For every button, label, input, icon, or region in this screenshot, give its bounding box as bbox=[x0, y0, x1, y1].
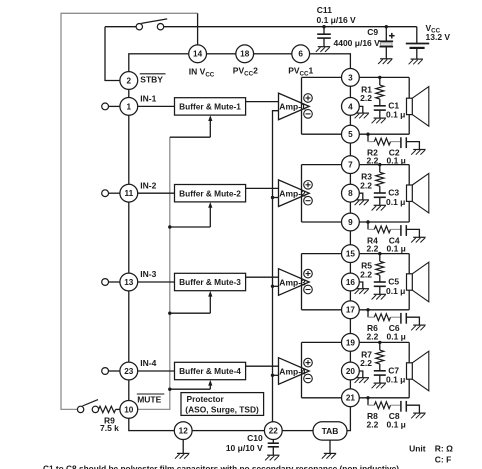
svg-text:2.2: 2.2 bbox=[360, 180, 372, 190]
svg-text:R: Ω: R: Ω bbox=[435, 443, 453, 453]
resistor R6 2.2 and capacitor C6 series bbox=[366, 308, 425, 330]
svg-text:19: 19 bbox=[346, 338, 356, 347]
capacitor C1 0.1u bbox=[372, 106, 386, 124]
svg-text:Amp-1: Amp-1 bbox=[279, 102, 306, 112]
svg-text:11: 11 bbox=[124, 189, 133, 198]
pin 2 bbox=[120, 72, 138, 90]
amp 2 output bus bbox=[301, 165, 303, 222]
wire Vcc to STBY/MUTE switches (gray loop) bbox=[61, 13, 198, 409]
svg-text:16: 16 bbox=[346, 278, 356, 287]
pin 15 bbox=[342, 245, 360, 263]
wire buffer 2 output to amp bbox=[246, 187, 279, 189]
svg-text:C10: C10 bbox=[247, 433, 263, 443]
amp 4 output bus bbox=[301, 342, 303, 397]
pin label PVcc1 bbox=[288, 66, 313, 78]
svg-text:21: 21 bbox=[346, 394, 356, 403]
wire pin to Buffer & Mute-4 bbox=[138, 370, 175, 372]
svg-text:IN-1: IN-1 bbox=[140, 94, 156, 104]
resistor R4 2.2 and capacitor C4 series bbox=[366, 220, 425, 242]
node label MUTE bbox=[137, 394, 165, 404]
svg-text:Buffer & Mute-1: Buffer & Mute-1 bbox=[179, 102, 241, 112]
ground at mid pin ch4 bbox=[355, 371, 369, 383]
pin 21 bbox=[342, 389, 360, 407]
resistor R2 2.2 and capacitor C2 series bbox=[366, 133, 425, 155]
speaker SP2 bbox=[407, 173, 429, 213]
pin 22 bbox=[264, 422, 282, 440]
wire top supply rail bbox=[105, 26, 417, 28]
note unit bbox=[409, 443, 453, 464]
op-amp Amp-4 bbox=[279, 358, 310, 385]
pin 19 bbox=[342, 334, 360, 352]
polarity minus amp 1 bbox=[304, 110, 313, 119]
node label IN-1 bbox=[140, 94, 156, 104]
polarity plus amp 1 bbox=[304, 94, 313, 103]
op-amp Amp-1 bbox=[279, 93, 310, 120]
amp 1 output bus bbox=[301, 77, 303, 134]
wire pin to Buffer & Mute-3 bbox=[138, 281, 175, 283]
svg-text:TAB: TAB bbox=[322, 426, 339, 436]
wire channel 4 bottom rail bbox=[302, 379, 410, 398]
svg-text:2.2: 2.2 bbox=[360, 93, 372, 103]
svg-text:18: 18 bbox=[240, 50, 250, 59]
wire channel 3 bottom rail bbox=[302, 290, 410, 310]
polarity plus amp 2 bbox=[304, 181, 313, 190]
resistor R7 2.2 bbox=[376, 341, 384, 371]
node label STBY bbox=[140, 74, 166, 85]
svg-text:C11: C11 bbox=[317, 5, 332, 15]
pin label PVcc2 bbox=[233, 66, 258, 78]
label R9 7.5k bbox=[100, 416, 119, 434]
speaker SP4 bbox=[407, 351, 429, 391]
svg-text:Protector: Protector bbox=[187, 394, 225, 404]
svg-text:0.1 μ: 0.1 μ bbox=[387, 331, 406, 341]
svg-text:0.1 μ: 0.1 μ bbox=[386, 110, 405, 120]
wire mute control bus (gray, pin 10 to buffer arrows) bbox=[138, 137, 170, 409]
svg-text:2.2: 2.2 bbox=[360, 358, 372, 368]
pin 4 bbox=[342, 98, 360, 116]
pin 3 bbox=[342, 69, 360, 87]
label R2 C2 bbox=[367, 148, 406, 166]
node label IN-2 bbox=[140, 180, 156, 190]
tab TAB bbox=[313, 422, 347, 440]
pin 17 bbox=[342, 301, 360, 319]
wire pin to Buffer & Mute-1 bbox=[138, 105, 175, 107]
resistor R1 2.2 bbox=[376, 76, 384, 106]
node label IN-4 bbox=[140, 358, 156, 368]
pin 18 bbox=[236, 45, 254, 63]
svg-text:Amp-2: Amp-2 bbox=[279, 189, 306, 199]
input terminal IN-4 bbox=[102, 368, 120, 375]
label Vcc 13.2V bbox=[426, 23, 451, 42]
svg-text:Buffer & Mute-3: Buffer & Mute-3 bbox=[179, 277, 241, 287]
ground pin 12 bbox=[175, 440, 189, 459]
battery Vcc 13.2V bbox=[406, 27, 429, 65]
speaker SP1 bbox=[407, 87, 429, 127]
pin 12 bbox=[174, 422, 192, 440]
wire switch to STBY pin 2 bbox=[105, 27, 120, 81]
svg-text:1: 1 bbox=[127, 102, 132, 111]
svg-text:3: 3 bbox=[348, 73, 353, 82]
pin 10 bbox=[120, 401, 138, 419]
svg-text:IN-4: IN-4 bbox=[140, 358, 156, 368]
svg-text:0.1 μ: 0.1 μ bbox=[387, 244, 406, 254]
pin 23 bbox=[120, 362, 138, 380]
buffer U2 Buffer & Mute-2 bbox=[175, 185, 246, 202]
svg-text:12: 12 bbox=[179, 427, 189, 436]
svg-text:Unit: Unit bbox=[409, 443, 426, 453]
ground at mid pin ch1 bbox=[355, 106, 369, 118]
svg-text:Amp-4: Amp-4 bbox=[279, 366, 306, 376]
op-amp Amp-3 bbox=[279, 269, 310, 296]
wire rail to IN Vcc pin 14 bbox=[197, 13, 199, 45]
svg-text:4400 μ/16 V: 4400 μ/16 V bbox=[334, 38, 381, 48]
wire mute control branch 1 with arrow bbox=[170, 115, 213, 137]
svg-text:17: 17 bbox=[346, 306, 356, 315]
amp 3 output bus bbox=[301, 254, 303, 310]
svg-text:MUTE: MUTE bbox=[137, 394, 161, 404]
svg-text:STBY: STBY bbox=[140, 74, 163, 84]
wire bias bus pin 22 to amps bbox=[271, 111, 279, 422]
capacitor C5 0.1u bbox=[372, 282, 386, 300]
resistor R3 2.2 bbox=[376, 163, 384, 193]
svg-text:Buffer & Mute-4: Buffer & Mute-4 bbox=[179, 366, 241, 376]
buffer U3 Buffer & Mute-3 bbox=[175, 273, 246, 290]
ground at mid pin ch3 bbox=[355, 282, 369, 294]
capacitor C3 0.1u bbox=[372, 193, 386, 211]
wire mute control branch 4 with arrow bbox=[168, 380, 212, 391]
pin 8 bbox=[342, 184, 360, 202]
wire channel 1 bottom rail bbox=[302, 115, 410, 135]
wire channel 4 top rail bbox=[302, 342, 410, 362]
svg-text:IN-3: IN-3 bbox=[140, 269, 156, 279]
svg-text:0.1 μ: 0.1 μ bbox=[386, 375, 405, 385]
label C10 value bbox=[226, 433, 263, 453]
label C11 value bbox=[317, 5, 357, 25]
capacitor C7 0.1u bbox=[372, 371, 386, 389]
IC package outline bbox=[129, 54, 351, 431]
pin 1 bbox=[120, 98, 138, 116]
resistor R8 2.2 and capacitor C8 series bbox=[366, 396, 425, 418]
label R8 C8 bbox=[367, 411, 406, 429]
pin 6 bbox=[292, 45, 310, 63]
pin 16 bbox=[342, 273, 360, 291]
svg-text:C: F: C: F bbox=[435, 454, 452, 464]
svg-text:0.1 μ: 0.1 μ bbox=[387, 419, 406, 429]
svg-text:0.1 μ/16 V: 0.1 μ/16 V bbox=[317, 15, 357, 25]
svg-text:IN-2: IN-2 bbox=[140, 180, 156, 190]
label R7 bbox=[360, 350, 372, 369]
svg-text:23: 23 bbox=[124, 367, 134, 376]
pin label IN Vcc bbox=[189, 67, 215, 79]
svg-text:2.2: 2.2 bbox=[367, 331, 379, 341]
svg-text:10: 10 bbox=[124, 405, 134, 414]
capacitor C11 bbox=[316, 25, 331, 52]
svg-text:10 μ/10 V: 10 μ/10 V bbox=[226, 443, 263, 453]
pin 7 bbox=[342, 156, 360, 174]
svg-text:13.2 V: 13.2 V bbox=[426, 32, 451, 42]
pin 11 bbox=[120, 184, 138, 202]
buffer U4 Buffer & Mute-4 bbox=[175, 362, 246, 379]
svg-text:0.1 μ: 0.1 μ bbox=[386, 286, 405, 296]
svg-text:Buffer & Mute-2: Buffer & Mute-2 bbox=[179, 188, 241, 198]
svg-text:C1 to C8 should be polyester f: C1 to C8 should be polyester film capaci… bbox=[43, 464, 399, 469]
wire channel 1 top rail bbox=[302, 77, 410, 98]
node label IN-3 bbox=[140, 269, 156, 279]
wire mute control branch 3 with arrow bbox=[168, 291, 212, 315]
label C3 bbox=[386, 188, 405, 207]
svg-text:22: 22 bbox=[269, 427, 279, 436]
pin 14 bbox=[189, 45, 207, 63]
input terminal IN-1 bbox=[102, 103, 120, 110]
capacitor C10 bbox=[265, 440, 279, 461]
ground TAB bbox=[322, 440, 336, 459]
pin 5 bbox=[342, 125, 360, 143]
op-amp Amp-2 bbox=[279, 180, 310, 207]
label C1 bbox=[386, 101, 405, 120]
speaker SP3 bbox=[407, 262, 429, 302]
pin 20 bbox=[342, 362, 360, 380]
wire channel 2 bottom rail bbox=[302, 201, 410, 222]
svg-text:2.2: 2.2 bbox=[360, 269, 372, 279]
label C7 bbox=[386, 366, 405, 385]
buffer U1 Buffer & Mute-1 bbox=[175, 98, 246, 115]
switch S2 mute bbox=[77, 400, 98, 413]
svg-text:7: 7 bbox=[348, 161, 353, 170]
polarity plus amp 3 bbox=[304, 269, 313, 278]
svg-text:2.2: 2.2 bbox=[367, 244, 379, 254]
svg-text:2: 2 bbox=[127, 76, 132, 85]
wire buffer 4 output to amp bbox=[246, 365, 279, 367]
polarity minus amp 2 bbox=[304, 196, 313, 205]
resistor R9 7.5k bbox=[99, 406, 120, 412]
polarity plus amp 4 bbox=[304, 358, 313, 367]
pin 9 bbox=[342, 213, 360, 231]
svg-text:(ASO, Surge, TSD): (ASO, Surge, TSD) bbox=[185, 405, 259, 415]
svg-text:0.1 μ: 0.1 μ bbox=[386, 197, 405, 207]
polarity minus amp 4 bbox=[304, 374, 313, 383]
label R1 bbox=[360, 85, 372, 104]
polarity minus amp 3 bbox=[304, 285, 313, 294]
capacitor C9 bbox=[378, 25, 395, 64]
label R5 bbox=[360, 261, 372, 280]
input terminal IN-3 bbox=[102, 279, 120, 286]
wire mute control branch 2 with arrow bbox=[168, 202, 212, 229]
resistor R5 2.2 bbox=[376, 252, 384, 282]
svg-text:C9: C9 bbox=[367, 27, 378, 37]
protector block bbox=[181, 393, 264, 416]
label C9 value bbox=[334, 27, 381, 48]
svg-text:4: 4 bbox=[348, 102, 353, 111]
label C5 bbox=[386, 277, 405, 296]
note capacitors caption bbox=[43, 464, 399, 469]
wire pin to Buffer & Mute-2 bbox=[138, 192, 175, 194]
label R6 C6 bbox=[367, 323, 406, 341]
svg-text:13: 13 bbox=[124, 278, 134, 287]
svg-text:6: 6 bbox=[298, 50, 303, 59]
wire buffer 3 output to amp bbox=[246, 276, 279, 278]
svg-text:7.5 k: 7.5 k bbox=[100, 423, 119, 433]
wire channel 2 top rail bbox=[302, 165, 410, 185]
svg-text:2.2: 2.2 bbox=[367, 419, 379, 429]
svg-text:8: 8 bbox=[348, 189, 353, 198]
wire channel 3 top rail bbox=[302, 254, 410, 274]
svg-text:Amp-3: Amp-3 bbox=[279, 277, 306, 287]
svg-text:9: 9 bbox=[348, 218, 353, 227]
svg-text:15: 15 bbox=[346, 250, 356, 259]
wire buffer 1 output to amp bbox=[246, 101, 279, 103]
switch S1 standby bbox=[136, 19, 167, 30]
svg-text:20: 20 bbox=[346, 367, 356, 376]
pin 13 bbox=[120, 273, 138, 291]
label R4 C4 bbox=[367, 235, 406, 253]
input terminal IN-2 bbox=[102, 190, 120, 197]
ground at mid pin ch2 bbox=[355, 193, 369, 205]
svg-text:5: 5 bbox=[348, 130, 353, 139]
svg-text:14: 14 bbox=[193, 50, 203, 59]
label R3 bbox=[360, 172, 372, 191]
